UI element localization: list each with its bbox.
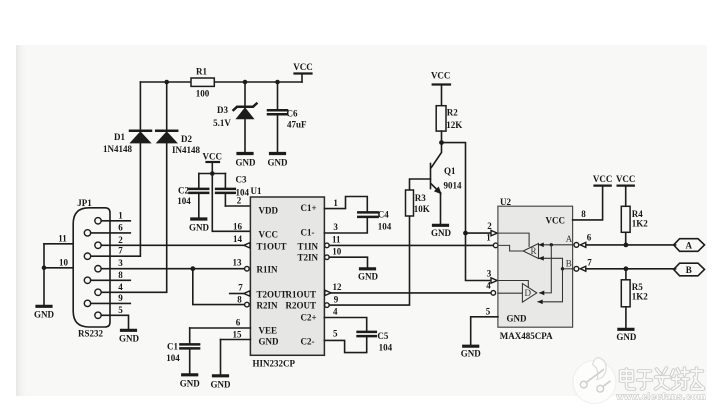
JP1 pin 3: [95, 258, 123, 272]
svg-text:2: 2: [118, 235, 123, 245]
pin 10 T2IN to ground: [325, 246, 368, 267]
svg-text:9: 9: [118, 293, 123, 303]
node D2 junction: [164, 80, 169, 85]
wire C3 to U1 pin2 VDD: [225, 196, 250, 207]
svg-text:13: 13: [233, 257, 243, 267]
svg-text:Q1: Q1: [444, 166, 456, 176]
svg-text:VDD: VDD: [259, 206, 279, 216]
wire VCC to U1 pin16: [212, 174, 250, 232]
svg-text:A: A: [566, 234, 573, 244]
svg-text:www.elecfans.com: www.elecfans.com: [616, 392, 706, 402]
svg-text:GND: GND: [616, 332, 637, 342]
svg-text:IN4148: IN4148: [172, 145, 201, 155]
svg-text:6: 6: [118, 222, 123, 232]
JP1 pin 4: [95, 282, 123, 296]
pin 5 wire C2-: [324, 329, 366, 353]
resistor R1: [191, 67, 214, 99]
svg-text:VCC: VCC: [593, 174, 613, 184]
VCC (U2 pin8): [593, 174, 613, 186]
svg-text:R1IN: R1IN: [257, 265, 279, 275]
pin 9 R2OUT to R3: [325, 216, 410, 307]
svg-text:RS232: RS232: [78, 329, 104, 339]
JP1 pin 5: [95, 305, 123, 319]
svg-text:1K2: 1K2: [632, 219, 649, 229]
svg-text:9: 9: [334, 294, 339, 304]
svg-text:D: D: [525, 288, 532, 298]
wire shell to ground: [42, 244, 47, 305]
svg-text:GND: GND: [236, 158, 257, 168]
wire JP1 shell pin 10: [44, 257, 73, 268]
svg-text:VCC: VCC: [203, 152, 223, 162]
JP1 pin 1: [95, 210, 131, 224]
node C6 junction: [275, 80, 280, 85]
wire Q1 collector to U2 pins 2 3: [442, 143, 491, 281]
svg-text:GND: GND: [189, 223, 210, 233]
resistor R5: [621, 280, 648, 307]
capacitor C5: [358, 331, 393, 353]
svg-text:R4: R4: [632, 209, 643, 219]
svg-text:5: 5: [486, 307, 491, 317]
svg-text:GND: GND: [358, 272, 379, 282]
U2 pin 6 A: [574, 232, 592, 247]
svg-text:GND: GND: [180, 379, 201, 389]
svg-text:JP1: JP1: [77, 198, 92, 208]
JP1 pin 8: [84, 270, 130, 284]
svg-text:47uF: 47uF: [287, 120, 307, 130]
ground (under R5): [616, 329, 637, 342]
svg-text:16: 16: [233, 222, 243, 232]
svg-text:R1OUT: R1OUT: [286, 290, 317, 300]
svg-text:C2-: C2-: [301, 337, 315, 347]
wire A line: [586, 244, 676, 246]
capacitor C2: [177, 174, 208, 218]
svg-text:15: 15: [233, 329, 243, 339]
node B terminal: [674, 263, 705, 276]
svg-text:1: 1: [118, 210, 123, 220]
svg-text:C1: C1: [167, 342, 178, 352]
resistor R2: [436, 106, 462, 131]
connector JP1 DB9: [73, 198, 110, 339]
svg-text:VCC: VCC: [259, 230, 279, 240]
svg-text:1: 1: [333, 198, 338, 208]
ground (JP1 pin5): [119, 330, 140, 343]
svg-text:10: 10: [59, 257, 69, 267]
internal A B wiring: [538, 234, 573, 303]
svg-text:6: 6: [587, 232, 592, 242]
U2 pin 2 arrow: [487, 221, 497, 236]
ground (JP1 shell): [34, 306, 55, 319]
svg-text:C2: C2: [178, 186, 189, 196]
svg-text:B: B: [566, 258, 572, 268]
ground (U1 pin10): [358, 269, 379, 282]
capacitor C3: [216, 174, 249, 207]
svg-text:GND: GND: [119, 334, 140, 344]
JP1 pin 9: [84, 293, 130, 307]
wire JP1 shell pin 11: [44, 233, 73, 244]
svg-text:T2IN: T2IN: [298, 253, 319, 263]
svg-text:GND: GND: [268, 158, 289, 168]
pin 3 wire C1-: [324, 217, 367, 233]
capacitor C6: [268, 82, 307, 152]
svg-text:8: 8: [237, 294, 242, 304]
resistor R3: [406, 190, 430, 216]
svg-text:VCC: VCC: [293, 62, 313, 72]
wire R5 to ground: [625, 307, 627, 328]
svg-text:T1IN: T1IN: [298, 242, 319, 252]
svg-text:U2: U2: [500, 197, 511, 207]
svg-text:B: B: [686, 265, 692, 275]
ground (U2 pin5): [461, 346, 482, 358]
svg-text:VEE: VEE: [259, 326, 278, 336]
VCC (top right of rail): [293, 62, 313, 82]
svg-text:MAX485CPA: MAX485CPA: [500, 331, 553, 341]
svg-text:8: 8: [581, 209, 586, 219]
wire JP1 pin5 to ground: [101, 315, 128, 329]
diode D1: [103, 82, 151, 154]
svg-text:104: 104: [177, 196, 191, 206]
U2 pin 7 B: [574, 257, 592, 271]
svg-text:7: 7: [587, 257, 592, 267]
pin 12 R1OUT to U2 pin4: [325, 282, 491, 296]
svg-text:R1: R1: [196, 67, 207, 77]
svg-text:R2: R2: [447, 108, 458, 118]
svg-text:2: 2: [487, 221, 492, 231]
svg-text:1K2: 1K2: [632, 292, 649, 302]
VCC (above C2 C3): [203, 152, 223, 174]
svg-text:GND: GND: [507, 314, 528, 324]
pin 4 wire C2+: [324, 306, 366, 330]
svg-text:D2: D2: [181, 134, 192, 144]
svg-text:7: 7: [238, 282, 243, 292]
node VCC junction: [199, 171, 226, 176]
receiver amp inside U2: [498, 233, 539, 258]
svg-text:104: 104: [379, 343, 393, 353]
svg-text:104: 104: [166, 353, 180, 363]
svg-text:C5: C5: [377, 331, 388, 341]
svg-text:6: 6: [236, 318, 241, 328]
wire JP1 pin3 to U1 pin13: [101, 268, 244, 270]
svg-text:R3: R3: [415, 193, 426, 203]
svg-text:C1-: C1-: [301, 228, 315, 238]
JP1 pin 7: [84, 246, 123, 260]
svg-text:GND: GND: [259, 337, 280, 347]
U2 pin 4 circle: [486, 280, 495, 295]
svg-text:9014: 9014: [444, 181, 463, 191]
node pin13 branch: [190, 266, 244, 304]
svg-text:12: 12: [333, 282, 343, 292]
svg-text:10: 10: [332, 246, 342, 256]
op-amp U2 MAX485CPA body: [498, 197, 573, 341]
VCC (R4): [616, 174, 636, 206]
U2 pin 1 circle: [486, 233, 498, 248]
svg-text:R5: R5: [632, 282, 643, 292]
wire top rail left: [140, 81, 191, 83]
svg-text:11: 11: [58, 233, 67, 243]
wire R2 to Q1 collector: [439, 131, 444, 145]
node A terminal: [674, 239, 705, 252]
pin 11 T1IN to U2 pin1: [325, 235, 494, 248]
wire B line: [586, 268, 676, 270]
svg-text:1N4148: 1N4148: [103, 144, 132, 154]
diode D2: [156, 82, 200, 155]
wire Q1 base to R3: [410, 179, 431, 190]
wire D2 to JP1 pin4: [101, 143, 167, 292]
svg-text:C3: C3: [236, 175, 247, 185]
svg-text:14: 14: [233, 234, 243, 244]
svg-text:5.1V: 5.1V: [213, 118, 231, 128]
resistor R4: [621, 206, 648, 232]
svg-text:VCC: VCC: [546, 216, 566, 226]
svg-text:C6: C6: [287, 109, 298, 119]
svg-text:104: 104: [378, 222, 392, 232]
label U1: [251, 186, 262, 196]
svg-text:100: 100: [196, 89, 210, 99]
U2 pin 3 arrow: [487, 268, 497, 283]
svg-text:A: A: [686, 240, 693, 250]
svg-text:R2IN: R2IN: [257, 301, 279, 311]
ground (under D3): [236, 154, 257, 168]
svg-text:8: 8: [118, 270, 123, 280]
wire R4 to A line: [624, 232, 629, 247]
node D3 junction: [243, 80, 248, 85]
pin 15 wire GND: [221, 329, 251, 374]
svg-text:11: 11: [332, 235, 341, 245]
ground (U1 pin15): [211, 376, 232, 390]
ground (under C1): [180, 375, 201, 389]
pin 8 circle R2IN: [237, 294, 249, 307]
node R5 junction: [624, 266, 629, 279]
U2 pin 8 to VCC: [573, 186, 603, 220]
svg-text:HIN232CP: HIN232CP: [253, 359, 296, 369]
svg-text:7: 7: [118, 246, 123, 256]
pin 6 wire VEE: [190, 318, 251, 329]
svg-text:3: 3: [333, 222, 338, 232]
pin 7 stub T2OUT: [230, 282, 250, 296]
svg-text:C4: C4: [378, 210, 389, 220]
svg-text:D3: D3: [217, 105, 228, 115]
op-amp U1 HIN232CP body: [250, 197, 324, 369]
svg-text:2: 2: [237, 196, 242, 206]
capacitor C1: [166, 328, 199, 373]
svg-text:T2OUT: T2OUT: [257, 290, 287, 300]
svg-text:T1OUT: T1OUT: [257, 242, 287, 252]
JP1 pin 6: [84, 222, 130, 236]
watermark chinese text (stylized): [621, 368, 704, 389]
VCC (above R2): [431, 71, 451, 106]
svg-text:R2OUT: R2OUT: [286, 301, 317, 311]
svg-text:3: 3: [118, 258, 123, 268]
svg-text:GND: GND: [461, 349, 482, 359]
ground (Q1 emitter): [431, 225, 452, 238]
svg-text:D1: D1: [114, 132, 125, 142]
transistor Q1 9014: [431, 143, 463, 224]
svg-text:GND: GND: [34, 310, 55, 320]
wire top rail right: [214, 81, 302, 83]
svg-text:10K: 10K: [414, 204, 430, 214]
ground (under C2): [189, 219, 210, 233]
svg-text:12K: 12K: [446, 120, 462, 130]
svg-text:C1+: C1+: [301, 203, 317, 213]
watermark logo circle: [573, 358, 616, 404]
JP1 pin 2: [95, 235, 123, 249]
svg-text:VCC: VCC: [431, 71, 451, 81]
pin 14 arrow T1OUT: [233, 234, 250, 248]
svg-text:U1: U1: [251, 186, 262, 196]
pin 13 circle R1IN: [233, 257, 250, 271]
svg-text:3: 3: [487, 268, 492, 278]
driver amp inside U2: [498, 281, 537, 303]
svg-text:5: 5: [333, 329, 338, 339]
U2 pin 5 to ground: [471, 307, 498, 345]
svg-text:4: 4: [333, 306, 338, 316]
pin 1 wire C1+: [324, 197, 367, 212]
ground (under C6): [268, 154, 289, 168]
zener diode D3 5.1V: [213, 82, 256, 152]
svg-text:GND: GND: [431, 228, 452, 238]
svg-text:GND: GND: [211, 380, 232, 390]
svg-text:C2+: C2+: [301, 313, 317, 323]
svg-text:R: R: [531, 246, 537, 256]
svg-text:5: 5: [118, 305, 123, 315]
svg-text:VCC: VCC: [616, 174, 636, 184]
wire JP1 pin2 to U1 pin14: [101, 244, 243, 246]
wire D1 to JP1 pin7: [91, 143, 141, 256]
svg-text:4: 4: [118, 282, 123, 292]
capacitor C4: [358, 210, 392, 232]
